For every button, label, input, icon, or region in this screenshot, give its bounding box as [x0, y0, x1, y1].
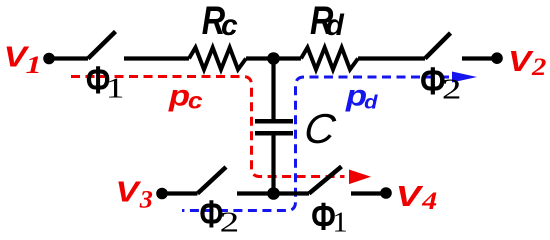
- svg-text:V: V: [116, 175, 142, 208]
- wire: top rail left segment (V1 dot to switch pivot): [49, 56, 88, 60]
- switch phi1 arm (bottom-right): [309, 167, 342, 194]
- capacitor C bottom plate: [255, 131, 293, 136]
- svg-text:c: c: [188, 89, 203, 114]
- svg-text:2: 2: [220, 208, 240, 235]
- svg-text:2: 2: [531, 53, 546, 81]
- wire: bottom-right stub to V4: [351, 191, 386, 195]
- svg-text:4: 4: [421, 186, 437, 214]
- node bottom (junction dot): [267, 187, 280, 200]
- svg-text:3: 3: [139, 185, 153, 213]
- terminal dot V2: [491, 52, 503, 64]
- path p_d (blue dashed loop): [182, 77, 449, 211]
- resistor Rd: [301, 48, 358, 70]
- wire: bottom rail left segment (V3 dot to switch pivot): [162, 191, 198, 195]
- svg-text:d: d: [364, 92, 378, 113]
- switch phi2 arm (bottom-left): [198, 167, 227, 194]
- wire: top-right stub to V2: [462, 56, 497, 60]
- wire: top rail from switch to resistor Rc: [124, 56, 189, 60]
- svg-text:c: c: [221, 9, 238, 42]
- svg-text:2: 2: [442, 74, 462, 104]
- wire: bottom rail centre segment: [237, 191, 309, 195]
- terminal dot V4: [380, 187, 392, 199]
- svg-text:1: 1: [26, 51, 42, 79]
- svg-text:V: V: [396, 181, 424, 213]
- node top (junction dot): [267, 52, 280, 65]
- arrowhead of p_c: [349, 170, 371, 185]
- wire: capacitor bottom lead: [271, 135, 275, 194]
- resistor Rc: [189, 48, 246, 70]
- svg-text:p: p: [168, 79, 190, 112]
- terminal dot V1: [43, 53, 55, 65]
- switch phi2 arm (top-right): [425, 33, 451, 59]
- wire: Rd to top-right switch: [358, 56, 425, 60]
- arrowhead of p_d: [452, 72, 477, 83]
- svg-text:1: 1: [106, 73, 125, 104]
- path p_c (red dashed loop): [71, 77, 345, 177]
- svg-text:V: V: [508, 45, 534, 78]
- svg-text:C: C: [302, 105, 339, 152]
- wire: capacitor top lead: [271, 59, 275, 120]
- svg-text:d: d: [326, 9, 345, 42]
- terminal dot V3: [156, 188, 168, 200]
- capacitor C top plate: [255, 119, 293, 124]
- wire: between Rc and Rd through node: [246, 56, 301, 60]
- switch phi1 arm (top-left): [88, 32, 116, 59]
- svg-text:1: 1: [332, 208, 347, 235]
